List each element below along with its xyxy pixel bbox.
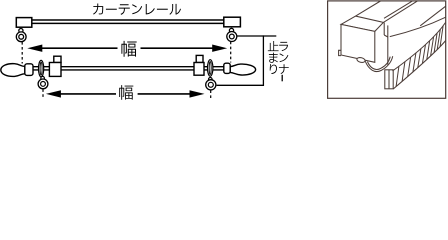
bottom decorative rod (double line) — [33, 66, 224, 68]
vertical label 止まり (left column) — [268, 41, 279, 51]
dashed projection line from left runner — [21, 42, 23, 64]
rail bottom edge e — [390, 17, 446, 36]
rail top edge line a to frame top — [356, 1, 381, 16]
3D rail end cap: front face — [341, 24, 375, 62]
slotted band body (curved, perspective) — [393, 23, 446, 72]
right ring hanging below rod — [209, 78, 213, 82]
bottom width arrow (幅) — [46, 90, 61, 97]
band hatch lines — [396, 66, 399, 86]
rail top-near edge c2 — [383, 1, 417, 23]
left end runner (wheel + ring) — [19, 29, 23, 33]
3D rail end cap: top face — [341, 16, 383, 31]
rail top-far edge c1 — [384, 1, 413, 18]
right bracket of top rail — [224, 17, 241, 27]
top width arrow (幅) — [27, 45, 42, 52]
rail cut-end verticals — [383, 23, 385, 35]
dashed projection line from left ring — [42, 89, 44, 99]
right rod bracket (tab + box) — [196, 55, 203, 62]
runner wheel under cap — [356, 57, 365, 63]
left bracket of top rail — [16, 18, 32, 28]
left ring hanging below rod — [41, 76, 45, 80]
right finial knob of rod — [230, 64, 256, 75]
dashed projection line from right ring — [210, 90, 212, 99]
rail far-bottom edge d — [420, 6, 446, 26]
vertical label ランナー (right column) — [279, 42, 288, 51]
left finial knob of rod — [1, 64, 25, 77]
top rail (double line) — [32, 19, 224, 21]
right hanging clip on rod — [208, 60, 213, 77]
cap foot tab — [339, 50, 341, 55]
left rod bracket (tab + box) — [54, 56, 61, 62]
left hanging clip on rod — [39, 60, 44, 77]
curtain-rail top diagram: label カーテンレール — [93, 4, 103, 15]
slotted band: near-end tab — [385, 70, 393, 89]
dashed projection line from right runner — [230, 42, 232, 63]
runner ring arc (inner) under cap — [367, 57, 390, 70]
inset illustration frame — [328, 1, 446, 98]
leader/bracket lines to 止まりランナー label — [237, 35, 276, 37]
runner ring arc (outer) under cap — [365, 56, 393, 71]
right end runner (wheel + ring) — [229, 28, 233, 32]
